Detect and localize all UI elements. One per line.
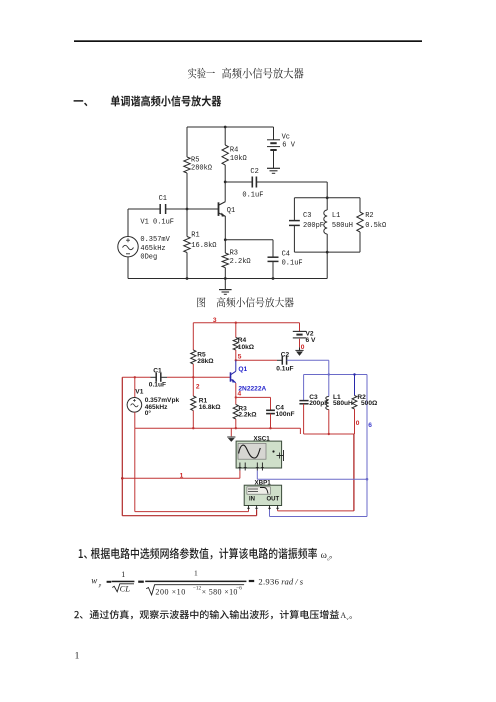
svg-text:w: w <box>91 576 97 586</box>
svg-text:p: p <box>98 584 102 589</box>
svg-text:5: 5 <box>238 354 242 361</box>
svg-text:C2: C2 <box>250 168 258 176</box>
svg-text:V1: V1 <box>135 389 143 396</box>
svg-text:OUT: OUT <box>267 497 280 503</box>
svg-text:V1 0.1uF: V1 0.1uF <box>140 218 174 226</box>
svg-text:580uH: 580uH <box>333 400 353 407</box>
svg-text:R4: R4 <box>230 147 238 155</box>
svg-text:XBP1: XBP1 <box>255 480 272 487</box>
svg-text:28kΩ: 28kΩ <box>197 358 214 365</box>
svg-text:0Deg: 0Deg <box>140 253 157 261</box>
svg-text:C1: C1 <box>159 195 167 203</box>
svg-text:R1: R1 <box>191 232 199 240</box>
svg-text:0.5kΩ: 0.5kΩ <box>365 222 386 230</box>
svg-text:100nF: 100nF <box>276 411 295 418</box>
svg-text:465kHz: 465kHz <box>140 245 165 253</box>
svg-text:500Ω: 500Ω <box>361 400 378 407</box>
svg-text:−12: −12 <box>193 586 202 592</box>
svg-text:C3: C3 <box>303 212 311 220</box>
svg-text:0.357mV: 0.357mV <box>140 236 170 244</box>
svg-text:× 580 ×10: × 580 ×10 <box>202 588 238 597</box>
svg-text:rad / s: rad / s <box>281 576 304 586</box>
svg-text:1: 1 <box>75 651 80 661</box>
svg-text:6 V: 6 V <box>282 142 295 150</box>
svg-text:−6: −6 <box>236 586 242 592</box>
svg-text:2.2kΩ: 2.2kΩ <box>230 258 251 266</box>
svg-text:580uH: 580uH <box>332 222 353 230</box>
svg-text:3: 3 <box>213 317 217 324</box>
svg-text:2.2kΩ: 2.2kΩ <box>238 412 257 419</box>
svg-text:Q1: Q1 <box>227 207 235 215</box>
svg-text:C1: C1 <box>153 368 162 375</box>
svg-text:C2: C2 <box>281 352 290 359</box>
svg-text:1: 1 <box>121 570 125 579</box>
svg-text:0.1uF: 0.1uF <box>149 382 166 389</box>
svg-text:XSC1: XSC1 <box>254 436 271 443</box>
svg-text:C4: C4 <box>282 251 290 259</box>
svg-text:6 V: 6 V <box>306 337 316 344</box>
svg-text:0.1uF: 0.1uF <box>242 192 263 200</box>
svg-text:16.8kΩ: 16.8kΩ <box>191 242 216 250</box>
svg-text:R3: R3 <box>230 250 238 258</box>
svg-text:10kΩ: 10kΩ <box>230 155 247 163</box>
svg-text:2: 2 <box>196 384 200 391</box>
svg-text:200 ×10: 200 ×10 <box>155 588 185 597</box>
svg-text:Vc: Vc <box>282 133 290 141</box>
svg-text:1: 1 <box>194 569 198 578</box>
svg-text:200pF: 200pF <box>303 222 324 230</box>
svg-text:16.8kΩ: 16.8kΩ <box>199 404 222 411</box>
svg-text:0.1uF: 0.1uF <box>276 366 293 373</box>
svg-text:0: 0 <box>301 344 305 351</box>
svg-text:CL: CL <box>120 584 131 594</box>
svg-text:0°: 0° <box>145 409 152 417</box>
svg-text:2N2222A: 2N2222A <box>238 385 266 392</box>
svg-text:0.1uF: 0.1uF <box>282 259 303 267</box>
svg-text:1: 1 <box>180 473 184 480</box>
svg-text:IN: IN <box>249 497 255 503</box>
svg-text:200pF: 200pF <box>309 400 328 407</box>
svg-text:R5: R5 <box>191 157 199 165</box>
svg-text:L1: L1 <box>332 212 340 220</box>
svg-text:2.936: 2.936 <box>258 576 279 586</box>
svg-text:10kΩ: 10kΩ <box>238 344 255 351</box>
svg-text:Q1: Q1 <box>238 366 247 373</box>
svg-text:ω: ω <box>321 551 327 561</box>
svg-text:R2: R2 <box>365 212 373 220</box>
svg-text:0: 0 <box>356 420 360 427</box>
svg-text:280kΩ: 280kΩ <box>191 165 212 173</box>
svg-text:6: 6 <box>368 422 372 429</box>
